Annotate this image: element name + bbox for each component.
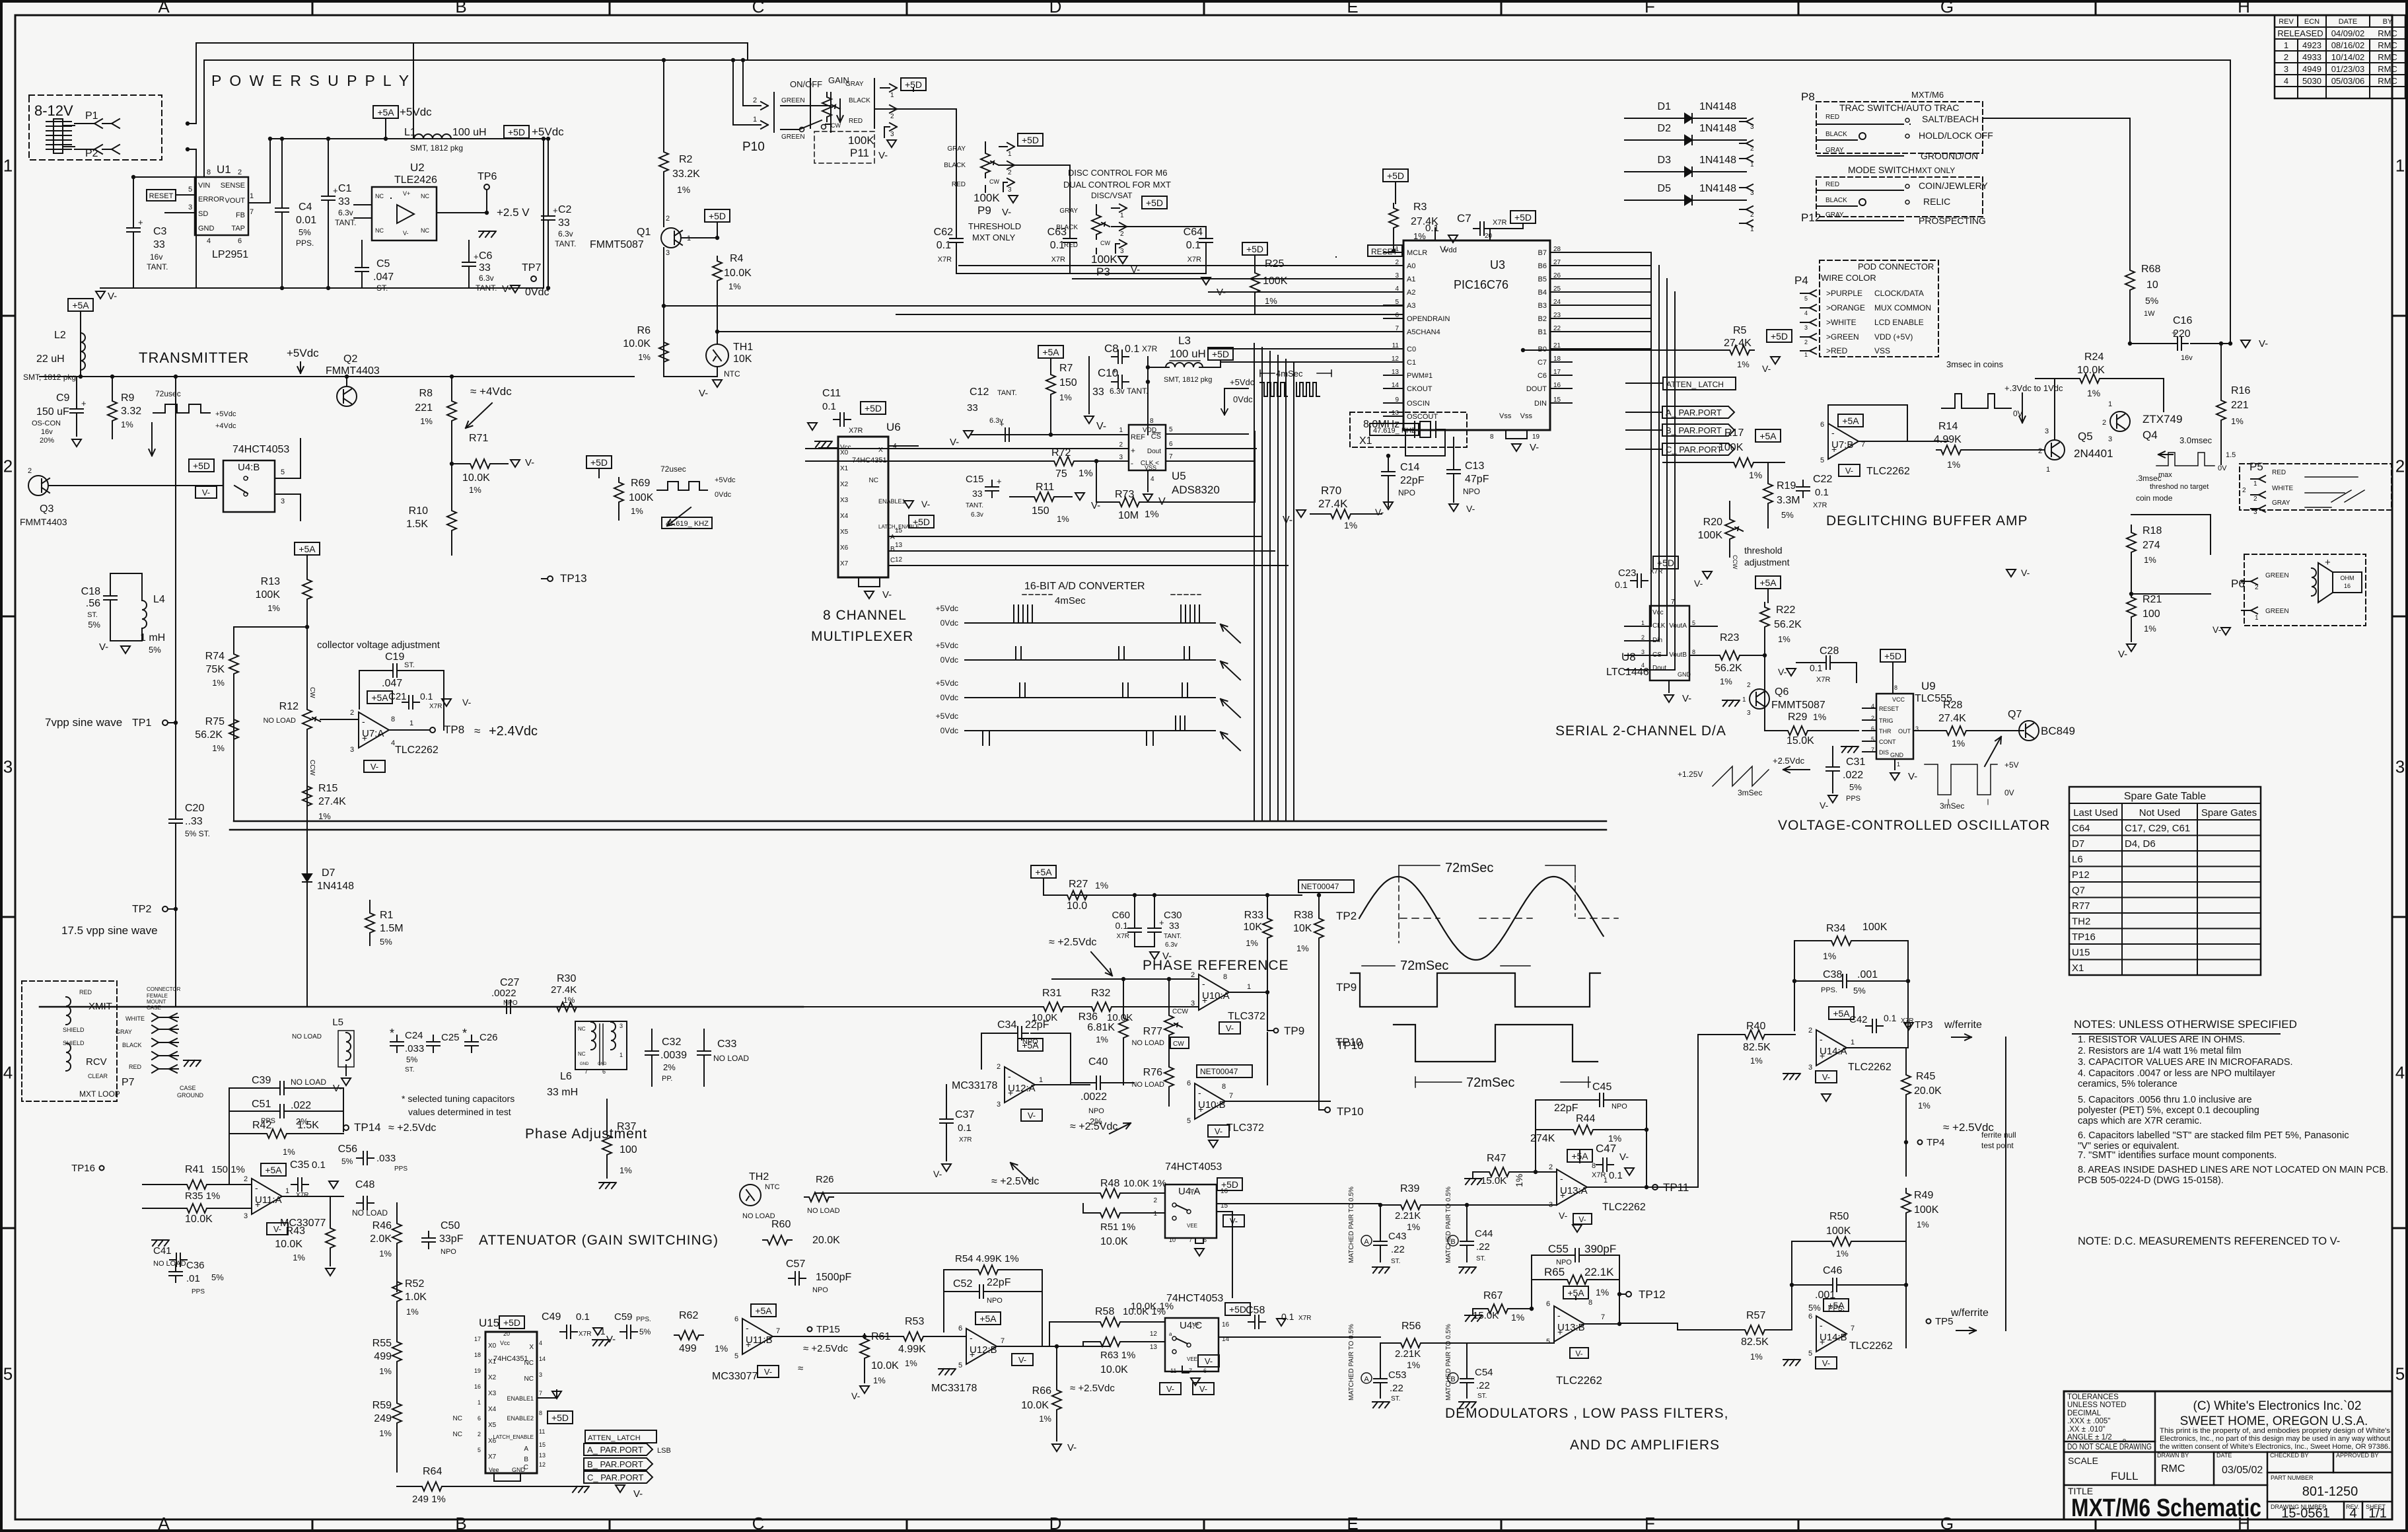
svg-text:max: max	[2158, 471, 2172, 479]
svg-text:DRAWN BY: DRAWN BY	[2157, 1452, 2189, 1459]
svg-text:VDD (+5V): VDD (+5V)	[1874, 332, 1913, 342]
svg-text:A: A	[524, 1445, 528, 1453]
svg-text:-: -	[1820, 1320, 1823, 1331]
svg-text:1: 1	[1119, 427, 1123, 434]
svg-text:V-: V-	[1822, 1072, 1830, 1082]
svg-text:C27: C27	[500, 977, 519, 988]
svg-text:4: 4	[2284, 76, 2288, 86]
svg-text:+5D: +5D	[1146, 198, 1163, 208]
svg-text:1: 1	[1641, 620, 1645, 626]
svg-text:1%: 1%	[1514, 1174, 1524, 1187]
svg-text:NO LOAD: NO LOAD	[352, 1208, 388, 1218]
svg-text:8: 8	[1588, 1299, 1592, 1307]
svg-text:1: 1	[1120, 212, 1124, 219]
svg-text:C41: C41	[153, 1245, 172, 1257]
svg-text:B7: B7	[1538, 249, 1547, 257]
svg-text:V-: V-	[1682, 693, 1691, 704]
svg-text:20.0K: 20.0K	[812, 1235, 840, 1246]
svg-text:ST.: ST.	[376, 283, 388, 293]
svg-text:0Vdc: 0Vdc	[940, 618, 958, 628]
svg-text:threshod no target: threshod no target	[2150, 483, 2209, 491]
svg-text:R40: R40	[1746, 1021, 1765, 1032]
svg-text:C35: C35	[290, 1159, 309, 1171]
svg-text:0Vdc: 0Vdc	[1233, 394, 1253, 404]
svg-text:15.0K: 15.0K	[1787, 735, 1814, 747]
svg-text:V-: V-	[99, 641, 108, 653]
svg-text:72mSec: 72mSec	[1400, 959, 1448, 973]
svg-text:CONNECTOR: CONNECTOR	[147, 986, 181, 992]
svg-text:B: B	[455, 1514, 466, 1532]
svg-text:P12: P12	[2072, 869, 2090, 881]
svg-text:0.1: 0.1	[1186, 240, 1201, 251]
svg-text:U15: U15	[479, 1317, 499, 1329]
svg-text:1.5: 1.5	[2226, 451, 2236, 459]
svg-text:P10: P10	[742, 140, 765, 154]
svg-text:27.4K: 27.4K	[1938, 713, 1966, 724]
svg-text:16v: 16v	[150, 252, 162, 262]
svg-text:C26: C26	[479, 1032, 498, 1043]
svg-text:15: 15	[539, 1441, 546, 1448]
svg-text:FMMT5087: FMMT5087	[590, 239, 644, 250]
svg-text:VSS: VSS	[1874, 346, 1890, 355]
svg-text:22: 22	[1553, 325, 1561, 332]
svg-text:Last Used: Last Used	[2073, 807, 2118, 819]
svg-text:P3: P3	[1096, 266, 1110, 278]
svg-text:0.1: 0.1	[1050, 240, 1065, 251]
svg-text:X7R: X7R	[1650, 568, 1662, 575]
svg-text:collector voltage adjustment: collector voltage adjustment	[317, 639, 441, 651]
svg-text:R60: R60	[771, 1219, 791, 1230]
svg-text:C19: C19	[385, 651, 404, 663]
svg-text:1%: 1%	[1608, 1133, 1621, 1144]
svg-text:ATTEN_ LATCH: ATTEN_ LATCH	[588, 1434, 641, 1442]
svg-text:V-: V-	[933, 1169, 942, 1179]
svg-text:3: 3	[2284, 64, 2288, 74]
svg-text:7: 7	[1871, 747, 1874, 753]
svg-text:V-: V-	[1578, 1215, 1586, 1224]
svg-text:33: 33	[967, 402, 978, 414]
svg-text:V-: V-	[1822, 1358, 1830, 1368]
svg-text:X5: X5	[840, 529, 849, 536]
svg-text:P1: P1	[85, 110, 98, 122]
svg-text:RESET: RESET	[149, 192, 174, 200]
svg-text:27.4K: 27.4K	[551, 984, 577, 996]
svg-text:C23: C23	[1618, 567, 1637, 579]
svg-text:TP9: TP9	[1336, 981, 1357, 994]
svg-text:coin mode: coin mode	[2136, 493, 2173, 503]
svg-text:+5A: +5A	[1042, 347, 1059, 357]
svg-text:VoutA: VoutA	[1669, 622, 1687, 630]
svg-text:19: 19	[474, 1368, 481, 1374]
svg-text:GREEN: GREEN	[2265, 608, 2289, 615]
svg-text:+5D: +5D	[1212, 349, 1229, 359]
svg-text:R11: R11	[1036, 482, 1054, 493]
svg-text:SENSE: SENSE	[221, 182, 245, 190]
svg-text:15-0561: 15-0561	[2281, 1506, 2329, 1521]
svg-text:MC33178: MC33178	[952, 1080, 997, 1091]
svg-text:7: 7	[250, 208, 254, 216]
svg-text:NPO: NPO	[503, 1000, 518, 1007]
svg-text:R42: R42	[252, 1120, 271, 1131]
svg-text:NC: NC	[869, 477, 878, 484]
svg-text:V-: V-	[1215, 1126, 1222, 1136]
svg-text:100K: 100K	[974, 192, 1000, 204]
svg-text:100K: 100K	[1091, 253, 1117, 266]
svg-text:0.01: 0.01	[296, 215, 316, 226]
svg-text:C7: C7	[1538, 359, 1547, 367]
svg-text:R66: R66	[1032, 1385, 1051, 1397]
svg-text:56.2K: 56.2K	[195, 729, 223, 741]
svg-text:12: 12	[895, 556, 903, 564]
svg-text:1%: 1%	[1057, 514, 1069, 524]
svg-text:2: 2	[1747, 682, 1751, 689]
svg-text:R14: R14	[1938, 421, 1958, 432]
svg-text:V-: V-	[1283, 515, 1293, 526]
svg-text:18: 18	[474, 1352, 481, 1358]
svg-text:TANT.: TANT.	[476, 283, 497, 293]
svg-text:R44: R44	[1576, 1113, 1595, 1124]
svg-text:NC: NC	[524, 1375, 534, 1383]
svg-text:1: 1	[250, 192, 254, 200]
svg-text:6: 6	[1808, 1313, 1812, 1321]
svg-text:5%: 5%	[1781, 510, 1794, 520]
svg-text:4: 4	[2395, 1063, 2405, 1083]
svg-text:PROSPECTING: PROSPECTING	[1919, 215, 1986, 226]
svg-text:1%: 1%	[1917, 1220, 1929, 1229]
svg-text:MOUNT: MOUNT	[147, 999, 166, 1005]
svg-text:5: 5	[734, 1352, 738, 1360]
svg-text:R71: R71	[469, 433, 488, 444]
svg-text:1%: 1%	[1737, 359, 1750, 369]
svg-text:R37: R37	[617, 1121, 636, 1132]
svg-text:Vee: Vee	[489, 1467, 499, 1473]
svg-text:-: -	[255, 1183, 258, 1193]
svg-text:DISC CONTROL FOR M6: DISC CONTROL FOR M6	[1068, 168, 1167, 178]
svg-text:VCC: VCC	[1892, 696, 1905, 703]
svg-text:F: F	[1645, 0, 1655, 17]
svg-text:U9: U9	[1921, 680, 1936, 692]
svg-text:X7R: X7R	[1816, 676, 1830, 684]
svg-text:2: 2	[3, 456, 13, 476]
svg-text:3: 3	[3, 757, 13, 777]
svg-text:MC33077: MC33077	[712, 1371, 758, 1382]
svg-text:V-: V-	[273, 1224, 281, 1234]
svg-text:≈: ≈	[798, 1363, 803, 1374]
svg-text:RED: RED	[1064, 242, 1078, 249]
svg-text:.0039: .0039	[660, 1050, 687, 1061]
svg-text:R39: R39	[1400, 1183, 1419, 1194]
svg-text:V-: V-	[1205, 1356, 1213, 1366]
svg-text:27.4K: 27.4K	[318, 796, 346, 807]
svg-text:C57: C57	[786, 1258, 805, 1270]
svg-text:R27: R27	[1069, 879, 1088, 890]
svg-text:-: -	[1008, 1071, 1011, 1081]
svg-text:5030: 5030	[2302, 76, 2321, 86]
svg-text:V-: V-	[1131, 264, 1140, 275]
svg-text:TRANSMITTER: TRANSMITTER	[139, 349, 249, 366]
svg-text:150: 150	[1032, 505, 1049, 517]
svg-text:4: 4	[893, 443, 897, 450]
svg-text:GRAY: GRAY	[947, 145, 966, 153]
svg-text:RED: RED	[79, 989, 92, 996]
svg-text:4.99K: 4.99K	[898, 1344, 926, 1355]
svg-text:D1: D1	[1658, 101, 1672, 112]
svg-text:6.3v: 6.3v	[989, 417, 1003, 425]
svg-text:U14:A: U14:A	[1820, 1046, 1847, 1057]
svg-text:1%: 1%	[1059, 392, 1072, 402]
svg-text:P5: P5	[2249, 460, 2263, 473]
svg-text:MXT/M6: MXT/M6	[1911, 90, 1944, 100]
svg-text:B: B	[890, 546, 895, 553]
svg-text:U13:B: U13:B	[1557, 1322, 1585, 1333]
svg-text:X5: X5	[488, 1422, 497, 1429]
svg-text:8: 8	[391, 715, 395, 723]
svg-text:1%: 1%	[1407, 1222, 1420, 1232]
svg-text:U12:B: U12:B	[970, 1344, 997, 1356]
svg-text:NTC: NTC	[724, 369, 740, 379]
svg-text:C64: C64	[2072, 823, 2090, 834]
svg-text:1%: 1%	[1918, 1101, 1930, 1111]
svg-text:4: 4	[1395, 285, 1399, 293]
svg-text:CASE: CASE	[180, 1085, 196, 1091]
svg-text:6: 6	[734, 1315, 738, 1323]
svg-text:100: 100	[620, 1144, 637, 1155]
svg-text:3.32: 3.32	[121, 406, 141, 417]
svg-text:+5D: +5D	[1884, 651, 1901, 661]
svg-text:V-: V-	[1028, 1111, 1036, 1120]
svg-text:4: 4	[539, 1340, 542, 1346]
svg-text:5. Capacitors .0056 thru 1.0 i: 5. Capacitors .0056 thru 1.0 inclusive a…	[2078, 1095, 2252, 1105]
svg-text:2%: 2%	[663, 1062, 676, 1072]
svg-text:1%: 1%	[406, 1307, 419, 1317]
svg-text:0.1: 0.1	[1615, 579, 1628, 590]
svg-text:1: 1	[2046, 466, 2050, 474]
svg-text:MULTIPLEXER: MULTIPLEXER	[811, 629, 913, 644]
svg-text:TP14: TP14	[354, 1121, 381, 1134]
svg-text:B4: B4	[1538, 289, 1547, 297]
svg-text:33 mH: 33 mH	[547, 1087, 578, 1098]
svg-text:TANT.: TANT.	[147, 262, 168, 272]
svg-text:C_ PAR.PORT: C_ PAR.PORT	[587, 1473, 644, 1482]
svg-text:A1: A1	[1407, 275, 1415, 283]
svg-text:16-BIT A/D CONVERTER: 16-BIT A/D CONVERTER	[1024, 581, 1145, 592]
svg-text:VSS: VSS	[1145, 464, 1156, 471]
svg-text:MATCHED PAIR TO 0.5%: MATCHED PAIR TO 0.5%	[1348, 1186, 1355, 1263]
svg-text:C52: C52	[953, 1278, 972, 1290]
svg-text:threshold: threshold	[1744, 545, 1783, 556]
svg-text:47.619_ KHZ: 47.619_ KHZ	[666, 520, 709, 528]
svg-text:U5: U5	[1172, 470, 1186, 482]
svg-text:C32: C32	[662, 1037, 681, 1048]
svg-text:5%: 5%	[1808, 1303, 1821, 1313]
svg-text:NPO: NPO	[1463, 487, 1480, 496]
svg-text:+5D: +5D	[590, 457, 608, 468]
svg-text:.01: .01	[186, 1273, 200, 1284]
svg-text:R69: R69	[631, 478, 650, 489]
svg-text:Spare Gate Table: Spare Gate Table	[2124, 791, 2206, 802]
svg-text:U15: U15	[2072, 947, 2090, 959]
svg-text:+5D: +5D	[193, 460, 210, 471]
svg-text:C0: C0	[1407, 346, 1416, 353]
svg-text:VIN: VIN	[198, 182, 210, 190]
svg-text:X6: X6	[840, 544, 849, 552]
svg-text:MODE SWITCH: MODE SWITCH	[1848, 164, 1915, 175]
svg-text:R19: R19	[1777, 480, 1796, 492]
svg-text:0.1: 0.1	[576, 1311, 590, 1323]
svg-text:>WHITE: >WHITE	[1826, 318, 1857, 327]
svg-text:1: 1	[890, 92, 894, 99]
svg-text:R28: R28	[1943, 700, 1962, 711]
svg-text:U2: U2	[410, 161, 425, 174]
svg-text:0.1: 0.1	[1281, 1311, 1294, 1322]
svg-text:NOTE: D.C. MEASUREMENTS REFERE: NOTE: D.C. MEASUREMENTS REFERENCED TO V-	[2078, 1235, 2340, 1247]
svg-text:NO LOAD: NO LOAD	[153, 1260, 186, 1268]
svg-text:C21: C21	[388, 691, 407, 702]
svg-text:X3: X3	[840, 497, 849, 504]
svg-text:C49: C49	[542, 1311, 561, 1323]
svg-text:5% ST.: 5% ST.	[185, 829, 210, 838]
svg-text:+5Vdc: +5Vdc	[936, 678, 958, 688]
svg-text:3.3M: 3.3M	[1777, 495, 1800, 506]
svg-text:MUX COMMON: MUX COMMON	[1874, 303, 1931, 312]
svg-text:0Vdc: 0Vdc	[715, 491, 732, 499]
svg-text:R47: R47	[1487, 1153, 1506, 1164]
svg-text:PPS.: PPS.	[1821, 986, 1837, 994]
svg-text:RMC: RMC	[2378, 64, 2397, 74]
svg-text:≈ +2.5Vdc: ≈ +2.5Vdc	[1070, 1121, 1117, 1132]
svg-text:U8: U8	[1621, 651, 1636, 663]
svg-text:5%: 5%	[2145, 295, 2158, 306]
svg-text:R62: R62	[679, 1310, 698, 1321]
svg-text:1: 1	[1750, 161, 1754, 168]
svg-text:2: 2	[2253, 495, 2257, 503]
svg-text:X7R: X7R	[849, 427, 863, 435]
svg-text:TLC2262: TLC2262	[1866, 466, 1910, 477]
svg-text:B_ PAR.PORT: B_ PAR.PORT	[587, 1459, 643, 1469]
svg-text:L1: L1	[404, 127, 416, 138]
svg-text:1: 1	[620, 1052, 623, 1058]
svg-text:6.3v: 6.3v	[971, 511, 983, 519]
svg-text:8: 8	[1592, 1162, 1596, 1170]
svg-text:CW: CW	[989, 178, 999, 185]
svg-text:12: 12	[1150, 1331, 1158, 1338]
svg-text:1: 1	[285, 1187, 289, 1195]
svg-text:U10:A: U10:A	[1202, 990, 1230, 1002]
svg-text:3: 3	[2253, 509, 2257, 516]
svg-text:27.4K: 27.4K	[1724, 338, 1752, 349]
svg-text:0.1: 0.1	[958, 1122, 972, 1134]
svg-text:V+: V+	[1190, 1188, 1197, 1194]
svg-text:GRAY: GRAY	[1825, 147, 1844, 154]
svg-text:V-: V-	[202, 488, 210, 497]
svg-text:10M: 10M	[1118, 510, 1139, 521]
svg-text:C37: C37	[955, 1109, 974, 1120]
svg-text:+5Vdc: +5Vdc	[715, 476, 736, 484]
svg-text:NC: NC	[453, 1431, 462, 1438]
svg-text:1: 1	[1395, 246, 1399, 253]
svg-text:FEMALE: FEMALE	[147, 993, 168, 999]
svg-text:C59: C59	[614, 1311, 633, 1323]
svg-text:75: 75	[1055, 468, 1067, 480]
svg-text:CCW: CCW	[1172, 1008, 1188, 1015]
svg-text:NO LOAD: NO LOAD	[292, 1033, 322, 1040]
svg-text:Q1: Q1	[637, 227, 651, 238]
svg-text:.001: .001	[1857, 969, 1878, 980]
svg-text:NC: NC	[453, 1415, 462, 1422]
svg-text:6: 6	[1169, 441, 1173, 448]
svg-text:+2.4Vdc: +2.4Vdc	[489, 724, 538, 739]
svg-text:X7R: X7R	[579, 1331, 591, 1338]
svg-text:3: 3	[666, 249, 670, 257]
svg-text:TP16: TP16	[2072, 931, 2096, 943]
svg-text:6: 6	[1871, 725, 1874, 732]
svg-text:TANT.: TANT.	[1127, 386, 1148, 396]
svg-text:GREEN: GREEN	[781, 133, 805, 141]
svg-text:.3msec: .3msec	[2136, 474, 2162, 483]
svg-text:C56: C56	[338, 1144, 357, 1155]
svg-text:C4: C4	[299, 201, 312, 213]
svg-text:.22: .22	[1390, 1383, 1403, 1394]
svg-text:15: 15	[895, 527, 903, 534]
svg-text:5: 5	[1546, 1338, 1550, 1346]
svg-text:V-: V-	[633, 1488, 643, 1500]
svg-text:* selected tuning capacitors: * selected tuning capacitors	[402, 1093, 514, 1104]
svg-text:R13: R13	[261, 576, 280, 587]
svg-text:16: 16	[1222, 1321, 1230, 1329]
svg-text:2: 2	[478, 1431, 481, 1438]
svg-text:+2.5Vdc: +2.5Vdc	[1773, 756, 1805, 766]
svg-text:2: 2	[1750, 211, 1754, 219]
svg-text:22pF: 22pF	[1400, 475, 1425, 486]
svg-text:1: 1	[1897, 761, 1900, 768]
svg-text:-: -	[1198, 1087, 1201, 1098]
svg-text:DEGLITCHING BUFFER AMP: DEGLITCHING BUFFER AMP	[1826, 513, 2028, 529]
svg-text:2. Resistors are 1/4 watt 1%: 2. Resistors are 1/4 watt 1% metal film	[2078, 1046, 2241, 1056]
svg-text:1: 1	[1750, 226, 1754, 233]
svg-text:72mSec: 72mSec	[1445, 861, 1493, 875]
svg-text:TP1: TP1	[132, 717, 151, 729]
svg-text:CLEAR: CLEAR	[88, 1073, 108, 1079]
svg-text:OUT: OUT	[1898, 728, 1911, 735]
svg-text:7: 7	[1189, 1368, 1192, 1374]
svg-text:≈ +4Vdc: ≈ +4Vdc	[470, 385, 512, 398]
svg-text:10.0K: 10.0K	[1100, 1364, 1128, 1375]
svg-text:GRAY: GRAY	[2272, 499, 2290, 507]
svg-text:ceramics, 5% tolerance: ceramics, 5% tolerance	[2078, 1079, 2178, 1089]
svg-text:16: 16	[1553, 382, 1561, 389]
svg-text:10: 10	[1392, 410, 1399, 417]
svg-text:A5CHAN4: A5CHAN4	[1407, 328, 1440, 336]
svg-text:+: +	[997, 476, 1002, 486]
svg-text:+5A: +5A	[1567, 1288, 1584, 1298]
svg-text:≈ +2.5Vdc: ≈ +2.5Vdc	[1070, 1383, 1115, 1394]
svg-text:1500pF: 1500pF	[816, 1272, 851, 1283]
svg-text:C6: C6	[479, 250, 493, 262]
svg-text:33: 33	[479, 262, 491, 274]
svg-text:RED: RED	[1825, 114, 1839, 121]
svg-text:+: +	[474, 252, 479, 262]
svg-text:+5A: +5A	[72, 300, 89, 310]
svg-text:1.5K: 1.5K	[297, 1120, 319, 1131]
svg-text:This print is the property of,: This print is the property of, and embod…	[2160, 1427, 2390, 1435]
svg-text:1%: 1%	[1749, 470, 1762, 480]
svg-text:5: 5	[3, 1364, 13, 1384]
svg-text:C9: C9	[56, 392, 70, 404]
svg-text:4949: 4949	[2302, 64, 2321, 74]
svg-text:D: D	[1049, 0, 1062, 17]
svg-text:C38: C38	[1823, 969, 1842, 980]
svg-text:V-: V-	[525, 457, 534, 468]
